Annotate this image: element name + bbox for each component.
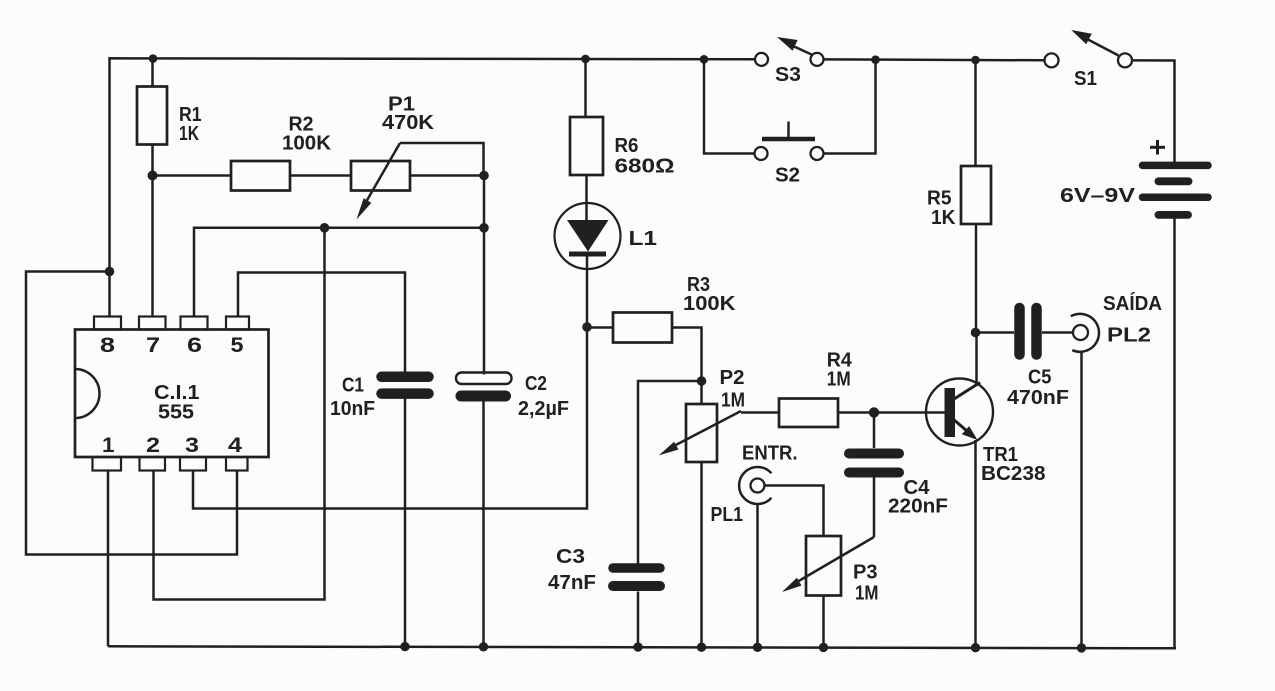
node R4-C4-base [869,407,879,417]
node gnd-P3 [819,643,828,652]
wire R1 top feed [151,59,154,87]
resistor R5 top feed [974,60,977,166]
op-amp: IC C.I.1 555 body [75,330,269,458]
svg-text:1M: 1M [855,583,879,605]
node pin2 tie [320,223,330,233]
node rail-R1 [149,54,158,63]
wire S2 branch left [704,59,755,153]
wire pin 3 output run [193,327,587,509]
potentiometer P3 body [806,536,841,647]
svg-text:470K: 470K [382,112,435,134]
resistor R6 top feed [584,59,587,117]
svg-text:C3: C3 [556,546,585,568]
wire pin 2 loop [154,228,325,600]
svg-text:ENTR.: ENTR. [742,443,798,465]
pin 2 stub [140,457,166,471]
svg-text:1M: 1M [827,369,851,391]
LED L1 [555,203,621,269]
wire pin 8 feed from rail [108,272,111,317]
node rail-S2left [700,55,709,64]
wire bottom ground rail [108,646,1176,648]
S1 lever arrow [1071,30,1118,56]
wire R1 bottom to pin 7 [151,145,154,317]
svg-text:P3: P3 [853,562,878,584]
node P1 right [479,171,489,181]
wire pin 1 to ground [107,471,110,647]
resistor R1 [137,87,167,145]
wire P1 right lead to junction [410,174,484,177]
resistor R3 [613,313,672,343]
node gnd-PL2 [1077,643,1086,652]
node gnd-C1 [400,642,409,651]
jack PL2 [1071,314,1099,352]
svg-text:10nF: 10nF [330,398,375,420]
wire pins 2+6 net horizontal [194,228,484,317]
wire top rail right segment to battery [1132,60,1175,162]
wire C2 to ground [482,402,485,647]
wire R2 left lead [153,174,232,177]
node gnd-emitter [971,643,980,652]
capacitor C4 [849,454,899,473]
capacitor C4 top lead [873,413,876,449]
wire P2 node to C3 [638,381,702,564]
capacitor C1 [382,377,429,394]
wire C4 bottom to P3 wiper [873,478,876,538]
wire junction to C2 top [483,176,486,375]
svg-text:100K: 100K [282,133,332,155]
potentiometer P2 body [686,381,717,647]
node rail-R5 [971,56,980,65]
transistor Q1 TR1 [926,379,993,446]
svg-text:1K: 1K [179,123,199,145]
wire PL2 shield to ground [1080,352,1083,648]
node LED-R3 [582,322,592,332]
svg-text:555: 555 [158,402,194,424]
wire collector vertical [975,333,978,387]
svg-text:3: 3 [185,434,199,457]
node rail-S2right [871,55,880,64]
node gnd-C3 [633,642,642,651]
svg-text:680Ω: 680Ω [615,156,675,178]
wire C1 to ground [404,399,407,647]
svg-text:2,2µF: 2,2µF [518,398,569,420]
svg-text:5: 5 [231,334,244,357]
svg-text:8: 8 [100,334,115,357]
wire top rail mid segment S3 to S1 [824,58,1045,61]
wire R4 left lead [741,411,779,414]
svg-text:6: 6 [187,334,202,357]
P1 wiper arrowhead [357,198,372,219]
svg-text:470nF: 470nF [1007,387,1069,409]
wire pin 5 to C1 [238,273,405,373]
svg-text:47nF: 47nF [548,572,596,594]
wire battery minus to bottom rail right side [1173,219,1176,649]
wire LED cathode down to node [586,257,589,328]
svg-text:100K: 100K [683,293,736,315]
capacitor C5 [1020,308,1037,355]
wire emitter to ground [974,440,977,648]
capacitor C3 [613,568,660,586]
pin 1 stub [93,457,122,471]
wire top supply rail left segment [110,58,756,271]
wire R5 bottom to collector node [975,224,978,333]
wire P1 wiper tie to right terminal [400,143,484,176]
node R3-P2 [697,376,707,386]
svg-text:2: 2 [146,434,160,457]
label battery plus [1150,140,1165,155]
svg-text:220nF: 220nF [888,496,948,518]
wire P3 wiper shaft [797,537,874,582]
node gnd-PL1 [753,643,762,652]
svg-text:C2: C2 [525,373,547,395]
svg-text:1M: 1M [721,390,745,412]
wire S2 branch right [824,60,876,154]
svg-text:SAÍDA: SAÍDA [1103,292,1162,315]
battery B1 6V-9V [1143,165,1209,215]
svg-text:PL2: PL2 [1107,325,1151,347]
svg-text:P2: P2 [720,367,745,389]
pin 4 stub [226,457,248,471]
pin 8 stub [94,317,121,330]
pin 6 stub [181,317,208,330]
svg-text:7: 7 [146,334,160,357]
capacitor C5 left lead [976,331,1015,334]
node gnd-P2 [697,643,706,652]
switch S1 contacts [1045,53,1133,67]
svg-text:BC238: BC238 [981,463,1046,485]
resistor R5 [961,166,991,224]
S3 lever arrow [777,37,812,55]
svg-text:S3: S3 [775,64,801,86]
wire R3 right to P2 top node [672,328,702,382]
svg-text:L1: L1 [629,228,658,250]
wire R6 to LED [585,175,588,220]
switch S2 contacts [755,147,824,160]
resistor R2 [231,161,290,191]
svg-text:S2: S2 [775,165,800,187]
wire C3 to ground [637,592,640,648]
pin 5 stub [226,317,249,330]
wire R3 left lead [587,326,613,329]
node R5-C5-collector [971,328,981,338]
wire P2 wiper shaft [672,411,741,447]
wire PL1 shield to ground [756,504,759,648]
svg-text:6V–9V: 6V–9V [1060,185,1136,207]
capacitor C2 electrolytic [456,373,512,397]
wire C5 to PL2 [1042,331,1073,334]
svg-text:S1: S1 [1074,68,1097,90]
svg-text:PL1: PL1 [711,504,744,526]
pin 7 stub [139,317,166,330]
node R1-R2-pin7 [148,171,158,181]
svg-text:R6: R6 [615,135,639,157]
switch S3 contacts [755,53,824,66]
node P1-C2 [479,223,489,233]
svg-text:C1: C1 [342,375,364,397]
S2 pushbutton bar [762,122,815,140]
jack PL1 [739,467,771,504]
wire P3 top to PL1 [765,486,824,537]
svg-text:C5: C5 [1028,367,1052,389]
node pin8 branch [105,267,115,277]
svg-text:4: 4 [228,434,242,457]
wire pin 8 to pin 4 outer loop [26,272,237,555]
svg-text:1K: 1K [931,207,956,229]
wire R4 right to base node [838,411,945,414]
node gnd-C2 [479,642,488,651]
wire P1 wiper arrow shaft [366,143,400,202]
potentiometer P1 body [351,161,410,191]
pin 3 stub [180,457,206,471]
P2 wiper arrowhead [659,442,679,456]
P3 wiper arrowhead [782,578,802,592]
resistor R4 [779,399,838,428]
resistor R6 [570,117,603,175]
wire R2 to P1 [290,174,351,177]
node rail-R6 [581,55,590,64]
svg-text:1: 1 [102,434,115,457]
